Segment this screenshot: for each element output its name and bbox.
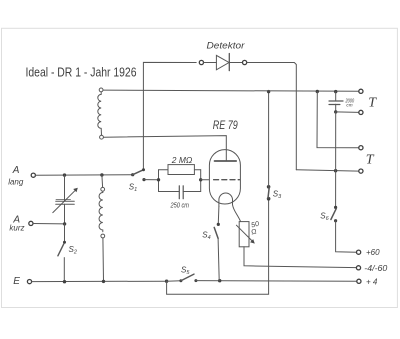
svg-text:cm: cm <box>346 102 352 107</box>
switch S6 <box>334 206 337 209</box>
switch S2 <box>64 224 66 242</box>
switch S3 <box>267 197 271 201</box>
svg-text:Detektor: Detektor <box>207 40 246 51</box>
node C2 / T1 bottom <box>334 110 337 113</box>
switch S1 <box>131 173 134 176</box>
wire filament right leg to rheostat <box>233 205 241 222</box>
rheostat R2 50 Ohm <box>239 222 249 247</box>
svg-text:S4: S4 <box>202 231 210 242</box>
svg-text:S3: S3 <box>273 189 282 200</box>
switch S5 <box>167 280 181 282</box>
svg-text:E: E <box>13 276 20 287</box>
wire diode output down <box>247 63 296 170</box>
svg-text:kurz: kurz <box>9 224 24 233</box>
wire main bus <box>103 90 359 91</box>
svg-text:250 cm: 250 cm <box>170 200 189 209</box>
svg-text:+ 4: + 4 <box>366 277 378 286</box>
node bus / S3 <box>267 90 270 93</box>
svg-text:Ideal - DR 1 - Jahr 1926: Ideal - DR 1 - Jahr 1926 <box>26 65 137 80</box>
svg-text:A: A <box>12 165 20 176</box>
svg-text:S6: S6 <box>320 212 329 223</box>
terminal A kurz <box>29 221 33 225</box>
wire filament left leg <box>217 207 220 224</box>
wire A kurz <box>33 223 65 225</box>
node A kurz junction <box>63 222 66 225</box>
wire E line <box>32 280 167 282</box>
svg-text:RE 79: RE 79 <box>213 118 238 132</box>
detector diode D1 <box>199 60 203 64</box>
wire L1 bottom to anode <box>104 136 227 161</box>
wire T2 bottom from diode <box>296 170 358 171</box>
variable capacitor C1 <box>64 175 66 201</box>
grid (dashed) <box>214 179 240 181</box>
svg-text:T: T <box>366 153 375 168</box>
wire left vertical to diode rail <box>143 62 196 169</box>
wire S1 to grid group <box>144 179 159 181</box>
node T2 bottom / S6 vertical <box>334 169 337 172</box>
svg-text:lang: lang <box>8 178 24 187</box>
node bus / cap drop <box>334 90 337 93</box>
svg-text:S2: S2 <box>69 245 77 256</box>
wire cap drop to S6 <box>335 112 337 207</box>
svg-text:S5: S5 <box>181 266 190 277</box>
coil L1 <box>99 88 103 92</box>
terminal T1 top <box>359 89 363 93</box>
terminal +4 <box>357 279 361 283</box>
wire T1 bottom <box>336 111 359 114</box>
node A lang / L2 junction <box>100 173 103 176</box>
capacitor C2 2000 cm <box>335 92 337 101</box>
wire S3 up to bus <box>268 92 270 187</box>
wire T2 top from bus <box>317 92 359 148</box>
terminal A lang <box>31 173 35 177</box>
svg-text:S1: S1 <box>129 183 137 194</box>
node bus / T2 drop <box>316 90 319 93</box>
node E / L2 <box>102 280 105 283</box>
terminal T2 bottom <box>359 169 363 173</box>
anode plate <box>215 160 237 162</box>
triode tube U1 RE 79 <box>209 150 240 204</box>
node E / S2 <box>63 280 66 283</box>
svg-text:2 MΩ: 2 MΩ <box>171 155 193 165</box>
node E / S4 <box>218 279 221 282</box>
resistor R1 2 MOhm with cap C3 parallel group <box>158 170 160 192</box>
terminal T2 top <box>359 146 363 150</box>
wire E line right to +4 <box>196 280 357 283</box>
terminal E <box>27 280 31 284</box>
node A lang / C1 junction <box>63 173 66 176</box>
capacitor C3 250 cm <box>159 191 180 193</box>
wire rheostat to -4/-60 <box>244 247 356 268</box>
svg-text:+60: +60 <box>366 248 380 257</box>
wire A lang to S1 <box>36 174 133 177</box>
terminal T1 bottom <box>359 110 363 114</box>
wire ground bypass <box>167 199 269 294</box>
filament <box>219 193 233 207</box>
coil L2 <box>101 175 104 187</box>
switch S4 <box>217 223 220 226</box>
node E / ground bypass <box>165 280 168 283</box>
terminal +60 <box>357 250 361 254</box>
svg-text:Ω: Ω <box>251 228 259 236</box>
terminal -4/-60 <box>356 266 360 270</box>
svg-text:-4/-60: -4/-60 <box>364 264 388 273</box>
svg-text:T: T <box>368 96 377 111</box>
wire grid lead <box>201 179 209 181</box>
wire S6 to +60 <box>336 221 357 253</box>
